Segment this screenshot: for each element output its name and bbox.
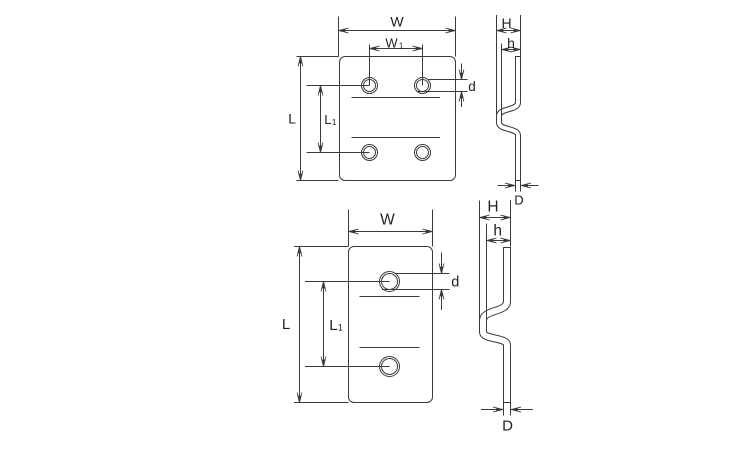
svg-text:W: W <box>385 35 398 50</box>
dimension H (top figure) <box>497 15 521 115</box>
svg-text:D: D <box>502 417 513 434</box>
dimension d (top figure) <box>417 64 476 108</box>
side profile (bottom figure, joggled strip) <box>483 247 507 403</box>
dimension W (top figure) <box>339 13 456 56</box>
svg-text:W: W <box>380 212 395 229</box>
dimension W1 (top figure) <box>370 35 423 85</box>
bend line upper (top figure) <box>352 97 441 99</box>
right surface extension line (top figure) <box>520 15 522 57</box>
bend line lower (bottom figure) <box>360 347 420 349</box>
svg-text:h: h <box>507 35 515 51</box>
dimension W (bottom figure) <box>349 210 433 247</box>
dimension L1 (bottom figure) <box>305 282 390 367</box>
svg-text:h: h <box>493 222 502 239</box>
hole top (bottom figure) <box>380 272 400 292</box>
svg-text:1: 1 <box>338 323 343 333</box>
svg-text:D: D <box>514 193 523 208</box>
hole bottom (bottom figure) <box>380 357 400 377</box>
hole bottom-left (top figure) <box>362 145 378 161</box>
dimension D (bottom figure) <box>481 403 533 435</box>
plate outline (top figure) <box>340 57 456 181</box>
right surface extension line (bottom figure) <box>510 200 512 247</box>
svg-text:L: L <box>288 110 296 126</box>
svg-text:d: d <box>468 79 476 94</box>
dimension L (bottom figure) <box>282 247 349 403</box>
hole top-right (top figure) <box>415 78 431 94</box>
dimension h (bottom figure) <box>487 222 511 321</box>
hole top-left (top figure) <box>362 78 378 94</box>
dimension L (top figure) <box>288 57 338 181</box>
svg-text:d: d <box>451 275 459 291</box>
svg-text:H: H <box>502 15 512 31</box>
svg-text:1: 1 <box>399 40 404 50</box>
svg-text:L: L <box>324 112 331 127</box>
dimension h (top figure) <box>502 35 521 116</box>
svg-text:1: 1 <box>332 117 337 127</box>
svg-text:W: W <box>390 13 404 29</box>
dimension L1 (top figure) <box>307 86 370 153</box>
side profile (top figure, joggled strip) <box>499 56 518 181</box>
svg-text:L: L <box>282 316 290 333</box>
svg-text:L: L <box>329 317 337 334</box>
plate outline (bottom figure) <box>349 247 433 403</box>
dimension H (bottom figure) <box>480 198 511 320</box>
bend line lower (top figure) <box>352 137 441 139</box>
hole bottom-right (top figure) <box>415 145 431 161</box>
svg-text:H: H <box>487 198 498 215</box>
bend line upper (bottom figure) <box>360 296 420 298</box>
dimension d (bottom figure) <box>382 253 459 311</box>
dimension D (top figure) <box>498 181 539 208</box>
